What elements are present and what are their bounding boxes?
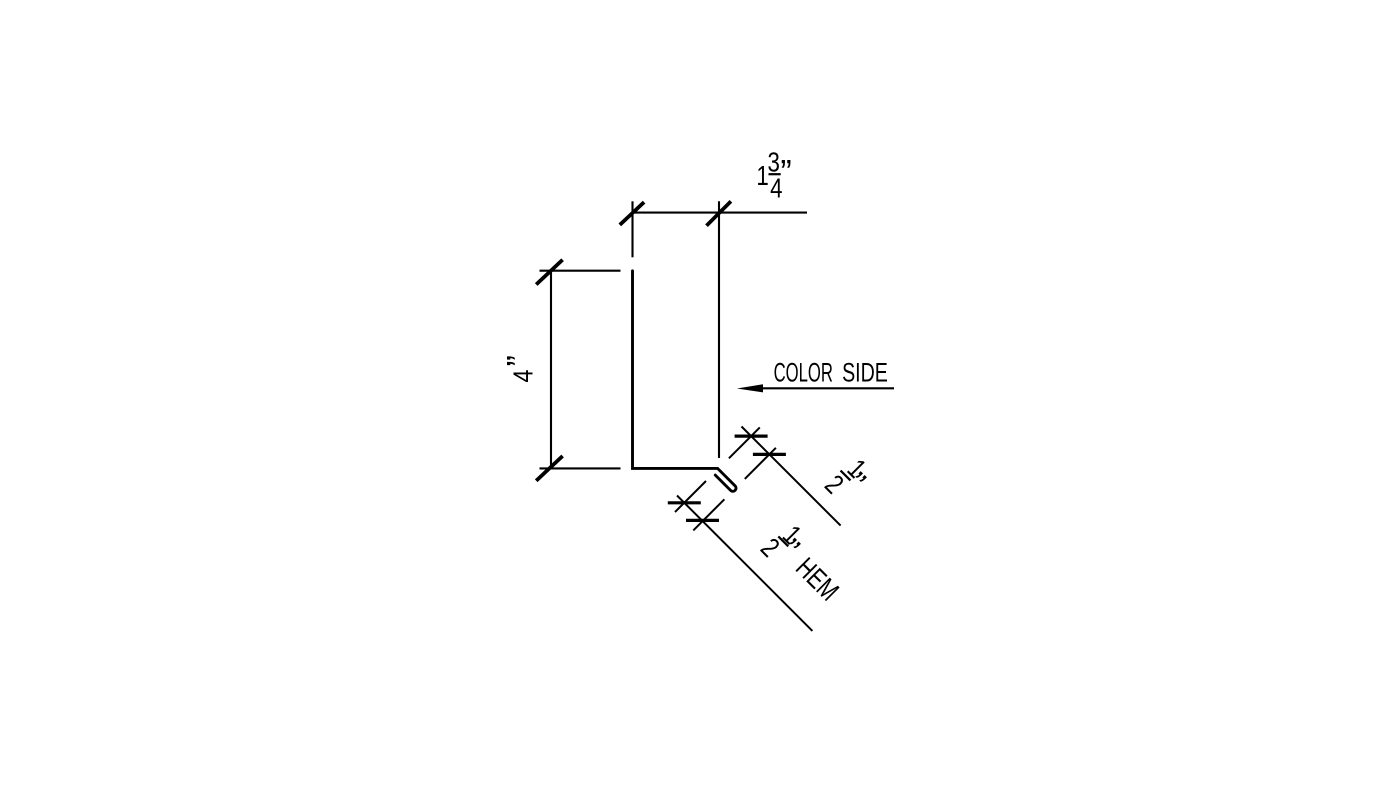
color side arrow line [761,387,894,389]
upper 1/2" extension line A [729,427,760,458]
lower 1/2" hem extension line B [693,499,724,530]
upper 1/2" tick A [735,435,768,438]
top dimension tick left [620,202,644,225]
upper 1/2" tick B [753,453,786,456]
4" tick top [536,260,562,285]
svg-text:”: ” [780,154,791,192]
top left extension line [631,201,633,257]
4" bottom extension line [540,467,621,469]
top dimension tick right [707,201,731,225]
label 1 3/4" (top) [756,147,791,204]
svg-text:SIDE: SIDE [842,357,888,387]
top right extension line [718,201,720,458]
lower 1/2" hem extension line A [675,481,706,512]
label 1/2" HEM (lower diagonal, rotated 45) [755,515,855,615]
color side arrowhead [737,384,763,392]
lower 1/2" hem dimension line [677,496,812,631]
profile flashing outline (4" face, 1-3/4" bottom leg, 1/2" hem) [633,271,737,492]
top dimension line (1-3/4") [633,212,808,214]
lower 1/2" tick B [686,519,719,522]
label 1/2" (upper diagonal, rotated 45) [819,450,878,509]
svg-text:HEM: HEM [789,553,844,608]
upper 1/2" dimension line [742,427,841,526]
lower 1/2" tick A [668,501,701,504]
upper 1/2" extension line B [745,448,776,479]
4" top extension line [540,270,621,272]
svg-text:4: 4 [507,370,538,383]
4" tick bottom [536,456,562,481]
4" dimension line (left) [550,270,552,469]
label 4" (left, rotated) [501,355,539,382]
svg-text:”: ” [501,355,539,366]
svg-text:COLOR: COLOR [774,357,833,387]
